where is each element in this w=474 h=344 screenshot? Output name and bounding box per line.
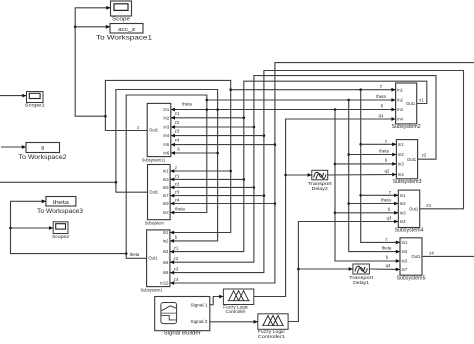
junction dot z2 into Subsystem <box>253 186 256 189</box>
svg-text:In4: In4 <box>397 117 403 122</box>
junction dot theta distribution <box>347 99 350 102</box>
svg-text:In1: In1 <box>400 193 406 198</box>
junction dot z to Subsystem2 <box>229 88 232 91</box>
junction dot theta to Subsystem3 <box>347 153 350 156</box>
svg-text:In2: In2 <box>400 201 406 206</box>
svg-text:Out1: Out1 <box>148 256 158 261</box>
junction dot z4 into Subsystem11 <box>274 143 277 146</box>
svg-text:In3: In3 <box>398 162 404 167</box>
svg-text:In7: In7 <box>402 267 408 272</box>
svg-text:In3: In3 <box>400 210 406 215</box>
svg-text:To Workspace3: To Workspace3 <box>37 208 84 215</box>
svg-text:q1: q1 <box>379 113 384 118</box>
svg-text:In3: In3 <box>163 177 169 182</box>
svg-text:In3: In3 <box>163 249 169 254</box>
svg-text:To Workspace2: To Workspace2 <box>19 154 68 161</box>
scope block Scope <box>111 1 132 22</box>
controller block Fuzzy Logic Controller <box>223 289 254 314</box>
junction dot fi into Subsystem11 <box>216 152 219 155</box>
to-workspace block theta / To Workspace3 <box>37 197 84 215</box>
svg-text:fi: fi <box>41 146 44 152</box>
junction dot z distribution <box>359 88 362 91</box>
svg-text:z: z <box>385 138 387 143</box>
svg-text:z: z <box>385 236 387 241</box>
svg-text:In7: In7 <box>163 193 169 198</box>
wire z1 loop from Subsystem2 Out1 <box>170 81 427 253</box>
svg-text:In1: In1 <box>163 169 169 174</box>
wire q2 from Transport Delay2 to Subsystem3 In4 <box>328 168 397 176</box>
junction dot z2 into Subsystem11 <box>253 126 256 129</box>
svg-text:theta: theta <box>175 207 185 212</box>
svg-text:In12: In12 <box>160 281 169 286</box>
svg-text:z1: z1 <box>175 173 180 178</box>
wire z2 loop from Subsystem3 Out1 <box>170 76 436 265</box>
wire z3 into Subsystem In7 <box>170 190 264 198</box>
svg-text:theta: theta <box>182 102 192 107</box>
svg-text:In1: In1 <box>397 87 403 92</box>
subsystem block Subsystem <box>145 165 170 226</box>
scope block Scope1 <box>25 92 46 108</box>
svg-text:In4: In4 <box>163 133 169 138</box>
svg-text:Signal 1: Signal 1 <box>191 302 208 307</box>
svg-text:In3: In3 <box>163 125 169 130</box>
controller block Fuzzy Logic Controller1 <box>258 314 288 339</box>
svg-text:theta: theta <box>130 252 140 257</box>
junction dot fi distribution <box>334 108 337 111</box>
wire z to right subsystems <box>231 84 396 92</box>
wire fi distribution vertical <box>335 110 400 263</box>
junction dot z1 into Subsystem <box>243 178 246 181</box>
junction dot fi bus crossing <box>216 108 219 111</box>
svg-text:Controller: Controller <box>226 309 246 314</box>
wire fi into Subsystem11 In6 <box>171 147 218 155</box>
wire q3 from Fuzzy Logic Controller1 <box>288 216 398 322</box>
svg-text:z4: z4 <box>175 198 180 203</box>
svg-text:Scope2: Scope2 <box>52 234 70 239</box>
subsystem block Subsystem2 <box>392 83 421 130</box>
svg-text:In9: In9 <box>163 270 169 275</box>
wire fi loop from Subsystem Out1 <box>116 90 218 243</box>
svg-text:q3: q3 <box>387 216 392 221</box>
wire theta distribution vertical <box>349 100 400 254</box>
svg-text:In5: In5 <box>163 142 169 147</box>
subsystem block Subsystem5 <box>397 238 426 282</box>
svg-text:In2: In2 <box>397 98 403 103</box>
svg-text:Out1: Out1 <box>149 128 159 133</box>
to-workspace block fi / To Workspace2 <box>19 143 68 161</box>
svg-text:theta: theta <box>53 200 70 206</box>
subsystem block Subsystem11 <box>142 103 171 162</box>
junction dot z to Subsystem3 <box>359 143 362 146</box>
wire theta to right subsystems <box>207 94 396 102</box>
junction dot Transport Delay2 feed <box>284 174 287 177</box>
junction dot Scope2 branch <box>9 227 12 230</box>
svg-text:z1: z1 <box>175 111 180 116</box>
svg-text:In6: In6 <box>163 260 169 265</box>
svg-text:Out1: Out1 <box>149 190 159 195</box>
junction dot Transport Delay1 feed <box>297 268 300 271</box>
wire branch to acc_z workspace <box>75 25 110 29</box>
junction dot theta to workspace3 <box>125 252 128 255</box>
svg-text:In1: In1 <box>163 230 169 235</box>
svg-text:fi: fi <box>177 147 179 152</box>
svg-text:Subsystem3: Subsystem3 <box>393 179 422 185</box>
scope block Scope2 <box>52 222 70 239</box>
svg-text:Scope: Scope <box>112 16 130 22</box>
source block Signal Builder <box>155 297 210 337</box>
wire z2 into Subsystem11 In3 <box>171 120 254 129</box>
svg-text:Signal Builder: Signal Builder <box>164 331 201 337</box>
junction dot z4 into Subsystem <box>274 202 277 205</box>
wire z3 into Subsystem11 In4 <box>171 129 264 138</box>
wire z distribution vertical <box>361 90 400 245</box>
wire z4 loop from Subsystem5 Out1 <box>422 250 474 256</box>
svg-text:z4: z4 <box>174 277 179 282</box>
wire q1 from Fuzzy Logic Controller <box>254 113 396 297</box>
wire into To Workspace2 from left edge <box>1 145 26 149</box>
svg-text:z: z <box>137 125 139 130</box>
wire q4 from Transport Delay1 to Subsystem5 In7 <box>369 263 400 271</box>
junction dot z3 into Subsystem11 <box>263 134 266 137</box>
svg-text:z2: z2 <box>175 181 180 186</box>
delay block Transport Delay2 <box>308 170 333 192</box>
junction dot theta to Subsystem2 <box>206 99 209 102</box>
wire into Transport Delay1 <box>298 267 353 271</box>
wire z1 into Subsystem In3 <box>170 173 244 181</box>
svg-text:In2: In2 <box>163 210 169 215</box>
junction dot fi to left edge <box>115 181 118 184</box>
svg-text:Subsystem: Subsystem <box>145 221 164 226</box>
svg-text:In2: In2 <box>398 152 404 157</box>
wire theta to Subsystem3 In2 <box>349 149 397 157</box>
svg-text:fi: fi <box>386 255 388 260</box>
svg-text:z2: z2 <box>422 153 427 158</box>
svg-text:fi: fi <box>385 158 387 163</box>
junction dot z to Subsystem mid2 <box>229 170 232 173</box>
svg-text:Out1: Out1 <box>411 254 421 259</box>
wire branch to Scope and To Workspace1 <box>75 6 110 116</box>
wire Signal 2 to Fuzzy Logic Controller1 <box>210 320 258 324</box>
junction dot fi to Subsystem4 <box>334 212 337 215</box>
svg-text:Scope1: Scope1 <box>25 102 46 107</box>
svg-text:Subsystem2: Subsystem2 <box>392 124 421 130</box>
svg-text:fi: fi <box>175 235 177 240</box>
wire fi to Subsystem3 In3 <box>335 158 396 166</box>
junction dot z1 into Subsystem11 <box>243 117 246 120</box>
svg-text:In1: In1 <box>402 240 408 245</box>
junction dot fi to Subsystem3 <box>334 163 337 166</box>
wire z4 into Subsystem11 In5 <box>171 138 275 147</box>
wire theta into Subsystem11 In1 and fi to Subsystem2 In3 <box>171 102 396 112</box>
svg-text:In1: In1 <box>163 107 169 112</box>
svg-text:Signal 2: Signal 2 <box>191 319 208 324</box>
svg-text:z3: z3 <box>174 267 179 272</box>
wire fi branch to canvas left edge <box>0 181 116 183</box>
wire into Scope1 from left edge <box>0 94 27 98</box>
svg-text:Controller1: Controller1 <box>258 334 285 339</box>
svg-text:z3: z3 <box>426 203 431 208</box>
svg-text:Delay2: Delay2 <box>312 186 328 192</box>
junction dot acc_z branch <box>74 26 77 29</box>
svg-text:In4: In4 <box>398 172 404 177</box>
svg-text:Delay1: Delay1 <box>353 280 369 286</box>
svg-text:z1: z1 <box>174 246 179 251</box>
subsystem block Subsystem1 <box>141 230 170 293</box>
svg-text:q2: q2 <box>385 168 390 173</box>
svg-text:z: z <box>175 165 177 170</box>
svg-text:z2: z2 <box>174 256 179 261</box>
svg-text:theta: theta <box>382 246 392 251</box>
svg-text:Out1: Out1 <box>406 101 416 106</box>
svg-text:fi: fi <box>381 104 383 109</box>
to-workspace block acc_z / To Workspace1 <box>96 24 153 42</box>
svg-text:fi: fi <box>388 207 390 212</box>
svg-text:z4: z4 <box>175 138 180 143</box>
svg-text:In2: In2 <box>163 115 169 120</box>
svg-text:In6: In6 <box>163 151 169 156</box>
subsystem block Subsystem4 <box>395 190 424 234</box>
svg-text:z: z <box>380 84 382 89</box>
wire into Transport Delay2 <box>286 173 312 177</box>
wire z to Subsystem In1 <box>170 165 231 173</box>
svg-text:theta: theta <box>381 198 391 203</box>
wire theta loop from Subsystem1 Out1 <box>126 95 207 258</box>
svg-text:In2: In2 <box>402 249 408 254</box>
wire Signal 1 to Fuzzy Logic Controller <box>210 295 224 305</box>
junction dot z3 into Subsystem <box>263 194 266 197</box>
svg-text:In9: In9 <box>163 201 169 206</box>
svg-text:q4: q4 <box>386 263 391 268</box>
svg-text:In3: In3 <box>397 107 403 112</box>
svg-text:In5: In5 <box>163 185 169 190</box>
wire z to Subsystem4 In1 <box>361 189 399 197</box>
wire z4 loop top <box>170 63 474 285</box>
svg-text:In3: In3 <box>402 259 408 264</box>
svg-text:In4: In4 <box>400 219 406 224</box>
svg-text:theta: theta <box>376 94 386 99</box>
svg-text:acc_z: acc_z <box>118 27 135 33</box>
wire z1 into Subsystem11 In2 <box>171 111 244 120</box>
wire z3 loop from Subsystem4 Out1 <box>170 71 464 275</box>
svg-text:Subsystem4: Subsystem4 <box>395 228 424 234</box>
wire fi to Subsystem4 In3 <box>335 207 398 215</box>
svg-text:Subsystem1: Subsystem1 <box>141 288 163 293</box>
svg-text:z4: z4 <box>429 250 434 255</box>
junction dot z branch to scopes <box>104 115 107 118</box>
svg-text:Subsystem5: Subsystem5 <box>397 275 426 281</box>
svg-text:Out1: Out1 <box>409 206 419 211</box>
svg-text:z3: z3 <box>175 190 180 195</box>
svg-text:Subsystem11: Subsystem11 <box>142 158 166 163</box>
svg-text:In1: In1 <box>398 142 404 147</box>
delay block Transport Delay1 <box>349 264 374 286</box>
svg-text:Out1: Out1 <box>407 157 417 162</box>
svg-text:z: z <box>389 189 391 194</box>
svg-text:z2: z2 <box>175 120 180 125</box>
svg-text:theta: theta <box>379 149 389 154</box>
wire z4 into Subsystem In9 <box>170 198 275 206</box>
svg-text:To Workspace1: To Workspace1 <box>96 34 153 41</box>
junction dot theta bus crossing <box>206 108 209 111</box>
junction dot theta to Subsystem4 <box>347 202 350 205</box>
wire branch to Scope2 <box>11 226 54 230</box>
subsystem block Subsystem3 <box>393 140 422 185</box>
svg-text:z3: z3 <box>175 129 180 134</box>
wire theta to To Workspace3 and Scope2 <box>11 199 127 253</box>
wire theta to Subsystem4 In2 <box>349 198 399 206</box>
wire z2 into Subsystem In5 <box>170 181 254 189</box>
wire z loop from Subsystem11 Out1 <box>105 80 230 234</box>
wire z to Subsystem3 In1 <box>361 138 397 146</box>
junction dot z to Subsystem4 <box>359 194 362 197</box>
svg-text:z1: z1 <box>419 98 424 103</box>
svg-text:In2: In2 <box>163 239 169 244</box>
